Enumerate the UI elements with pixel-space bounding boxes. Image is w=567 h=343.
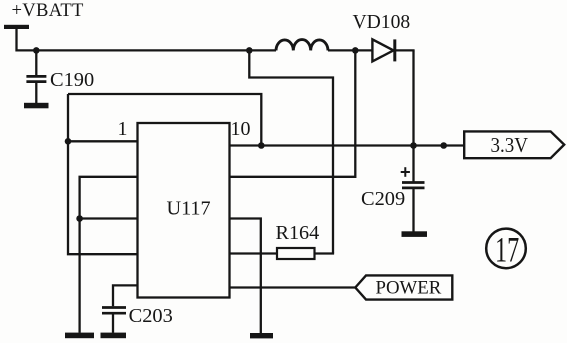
inductor L1 <box>276 40 328 51</box>
ground bottom left <box>65 333 94 339</box>
ground below C203 <box>101 333 127 339</box>
wire pin 3 left <box>80 217 138 219</box>
wire 3.3V rail from pin 10 <box>230 144 465 146</box>
node junction dot near 3.3V flag <box>440 142 447 149</box>
resistor R164 <box>276 222 320 259</box>
ground below C209 <box>402 231 428 237</box>
svg-text:C190: C190 <box>50 69 94 91</box>
wire cathode drop to C209 <box>412 50 414 181</box>
wire pin 2 left and down to ground <box>80 177 138 333</box>
power symbol +VBATT <box>4 0 84 51</box>
wire pin 3 right to ground column <box>230 219 261 334</box>
node junction dot C209 tap <box>410 142 417 149</box>
node junction dot frame to rail <box>258 142 265 149</box>
svg-text:+VBATT: +VBATT <box>12 0 85 21</box>
wire left rail down to pin 4 <box>68 94 138 254</box>
node junction dot diode anode branch <box>352 47 359 54</box>
svg-text:U117: U117 <box>167 197 211 219</box>
svg-text:17: 17 <box>495 230 519 270</box>
svg-text:10: 10 <box>231 118 251 140</box>
diode VD108 <box>353 12 411 61</box>
svg-text:3.3V: 3.3V <box>491 134 529 157</box>
net flag 3.3V <box>464 131 564 158</box>
capacitor C209 <box>361 167 425 231</box>
ground below C190 <box>24 103 49 109</box>
svg-text:R164: R164 <box>276 222 320 244</box>
svg-text:C203: C203 <box>129 305 173 327</box>
svg-text:POWER: POWER <box>376 278 442 299</box>
node junction dot inductor input <box>246 47 253 54</box>
svg-text:VD108: VD108 <box>353 12 411 33</box>
wire pin 1 <box>68 140 138 142</box>
capacitor C203 <box>102 285 173 332</box>
svg-text:C209: C209 <box>361 188 405 210</box>
wire frame top: left rail to pin10 column <box>68 94 261 146</box>
svg-text:1: 1 <box>118 118 128 140</box>
wire inductor to diode <box>328 49 372 51</box>
node junction dot C190 tap <box>33 47 40 54</box>
sheet number circle 17 <box>486 229 526 270</box>
node junction dot pin1 <box>65 138 72 145</box>
wire branch 1: inductor input down right and down to R164 <box>249 50 333 253</box>
op-amp U117 box <box>138 123 230 298</box>
ground bottom middle <box>250 333 273 338</box>
node junction dot pin 3 tap <box>76 215 83 222</box>
wire pin 4 right to R164 <box>230 252 278 254</box>
wire R164 right lead <box>315 252 335 254</box>
wire branch 2: inductor output down to pin wire <box>230 50 356 176</box>
capacitor C190 <box>26 50 94 103</box>
wire top rail <box>17 49 277 51</box>
net flag POWER <box>355 275 452 299</box>
wire pin 5 to POWER flag <box>230 286 357 288</box>
wire diode cathode to corner <box>395 49 415 51</box>
